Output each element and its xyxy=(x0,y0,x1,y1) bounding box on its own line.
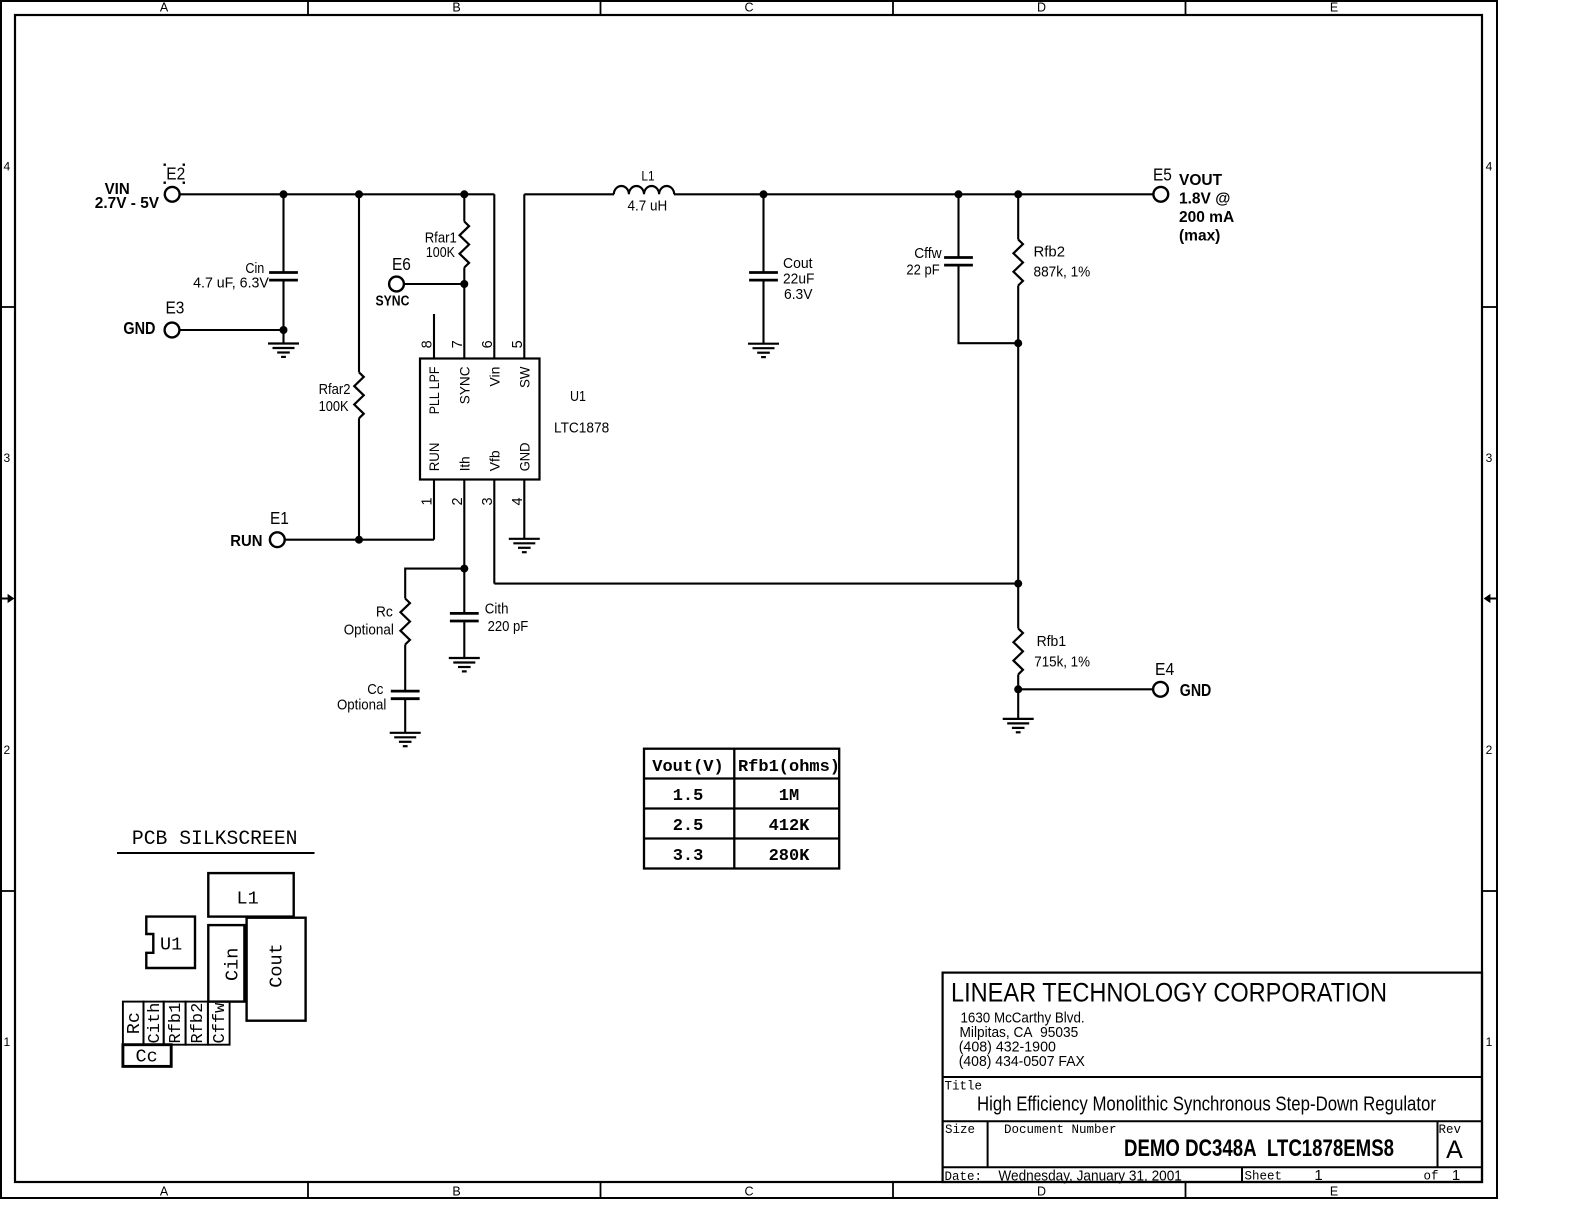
svg-text:Wednesday, January 31, 2001: Wednesday, January 31, 2001 xyxy=(998,1168,1182,1185)
wire Ith branch to Rc xyxy=(405,569,464,599)
svg-text:3: 3 xyxy=(480,497,496,505)
capacitor Cith xyxy=(450,613,479,621)
svg-text:2: 2 xyxy=(3,743,10,757)
silkscreen U1 box xyxy=(146,917,195,968)
svg-text:Title: Title xyxy=(945,1080,983,1094)
svg-text:Cc: Cc xyxy=(367,681,384,698)
wire Cith bottom xyxy=(463,621,465,658)
svg-text:Rfb1(ohms): Rfb1(ohms) xyxy=(738,758,840,777)
inductor L1 xyxy=(614,186,674,194)
svg-text:Sheet: Sheet xyxy=(1245,1170,1283,1184)
svg-text:6.3V: 6.3V xyxy=(784,286,813,303)
svg-text:Cout: Cout xyxy=(783,255,813,272)
svg-text:Cout: Cout xyxy=(267,943,288,987)
wire E6 to SYNC node xyxy=(404,283,464,285)
ground at Cc xyxy=(390,733,421,746)
svg-text:Cffw: Cffw xyxy=(211,1002,230,1044)
silkscreen Cffw box xyxy=(208,1002,230,1045)
svg-text:100K: 100K xyxy=(319,398,349,415)
ground at U1 GND pin xyxy=(509,539,540,552)
zone digits left xyxy=(3,160,10,1050)
wire pin4 GND xyxy=(523,480,525,539)
svg-text:1M: 1M xyxy=(779,787,799,806)
svg-text:B: B xyxy=(452,1184,460,1198)
svg-text:Optional: Optional xyxy=(344,622,394,639)
capacitor Cc xyxy=(391,691,420,699)
svg-text:E: E xyxy=(1330,1184,1338,1198)
wire Rfb1 to E4 xyxy=(1018,688,1153,690)
svg-text:GND: GND xyxy=(1180,680,1212,700)
svg-text:SYNC: SYNC xyxy=(456,367,472,405)
svg-text:8: 8 xyxy=(420,340,436,348)
svg-text:2.7V - 5V: 2.7V - 5V xyxy=(95,195,160,212)
capacitor Cout xyxy=(749,273,778,281)
svg-text:220 pF: 220 pF xyxy=(488,618,529,635)
svg-text:of: of xyxy=(1424,1170,1439,1184)
svg-text:4: 4 xyxy=(510,497,526,505)
junction VOUT/Cffw xyxy=(955,190,963,198)
wire Rfar1 bottom to pin7 xyxy=(463,268,465,359)
svg-text:E4: E4 xyxy=(1155,659,1174,679)
wire Rfar2 bottom to RUN xyxy=(358,418,360,539)
svg-text:PLL LPF: PLL LPF xyxy=(426,367,442,415)
junction VOUT/Rfb2 xyxy=(1014,190,1022,198)
svg-text:Size: Size xyxy=(945,1123,975,1137)
junction Cin/E3 xyxy=(280,326,288,334)
svg-text:VOUT: VOUT xyxy=(1179,172,1223,189)
svg-text:LINEAR TECHNOLOGY CORPORATION: LINEAR TECHNOLOGY CORPORATION xyxy=(951,978,1387,1008)
silkscreen Cc box xyxy=(123,1045,171,1067)
svg-text:715k, 1%: 715k, 1% xyxy=(1034,654,1090,671)
svg-text:E3: E3 xyxy=(166,298,185,318)
wire Cffw top xyxy=(957,194,959,257)
svg-text:22 pF: 22 pF xyxy=(906,262,939,279)
left fold arrow xyxy=(1,594,14,603)
svg-text:U1: U1 xyxy=(160,935,182,956)
wire Cout bottom xyxy=(762,280,764,344)
junction Rfb1/E4 xyxy=(1014,685,1022,693)
wire Cin bottom to ground xyxy=(282,280,284,343)
wire pin2 Ith to Cith xyxy=(463,480,465,614)
svg-text:1: 1 xyxy=(1486,1035,1493,1049)
wire Rfb2 top xyxy=(1017,194,1019,239)
svg-text:Date:: Date: xyxy=(945,1170,983,1184)
junction VOUT/Cout xyxy=(760,190,768,198)
wire Rfar2 top xyxy=(358,194,360,372)
silkscreen Rfb2 box xyxy=(186,1002,208,1045)
svg-text:Cc: Cc xyxy=(136,1047,158,1068)
svg-text:3.3: 3.3 xyxy=(673,847,704,866)
junction Cffw/Rfb2 bottom xyxy=(1014,339,1022,347)
svg-text:Cith: Cith xyxy=(146,1003,165,1044)
wire VOUT rail L1 to E5 xyxy=(674,193,1153,195)
svg-text:Rc: Rc xyxy=(124,1012,145,1034)
ground at Cin/E3 xyxy=(268,344,299,357)
company address xyxy=(959,1010,1085,1071)
junction VIN/Rfar2 xyxy=(355,190,363,198)
svg-text:U1: U1 xyxy=(570,388,586,405)
svg-text:1: 1 xyxy=(1314,1167,1322,1184)
svg-text:2: 2 xyxy=(1486,743,1493,757)
svg-text:E: E xyxy=(1330,1,1338,15)
junction VIN/Rfar1 xyxy=(460,190,468,198)
resistor Rc xyxy=(400,599,410,645)
svg-text:Rev: Rev xyxy=(1439,1123,1462,1137)
wire SW rail pin5 to L1 xyxy=(524,193,614,195)
svg-text:Vin: Vin xyxy=(486,367,502,387)
svg-text:L1: L1 xyxy=(236,889,258,910)
svg-text:1.8V @: 1.8V @ xyxy=(1179,191,1230,208)
svg-text:E1: E1 xyxy=(270,508,289,528)
svg-text:4: 4 xyxy=(3,160,10,174)
svg-text:5: 5 xyxy=(510,340,526,348)
wire Rc to Cc xyxy=(404,645,406,692)
svg-text:4.7 uF, 6.3V: 4.7 uF, 6.3V xyxy=(193,275,269,292)
terminal E3 xyxy=(165,323,180,338)
svg-text:D: D xyxy=(1037,1,1046,15)
wire pin1 RUN xyxy=(433,480,435,540)
svg-text:A: A xyxy=(160,1,169,15)
svg-text:7: 7 xyxy=(450,340,466,348)
svg-text:Ith: Ith xyxy=(456,456,472,471)
svg-text:GND: GND xyxy=(123,318,155,338)
terminal E2 xyxy=(165,187,180,202)
svg-text:280K: 280K xyxy=(769,847,811,866)
svg-text:3: 3 xyxy=(3,451,10,465)
zone digits right xyxy=(1486,160,1493,1050)
terminal E1 xyxy=(270,532,285,547)
junction Vfb feedback xyxy=(1014,580,1022,588)
svg-text:PCB SILKSCREEN: PCB SILKSCREEN xyxy=(132,828,298,851)
svg-text:1.5: 1.5 xyxy=(673,787,704,806)
svg-text:(max): (max) xyxy=(1179,228,1220,245)
silkscreen Cin box xyxy=(208,925,244,1002)
wire Cout top xyxy=(762,194,764,272)
svg-text:E6: E6 xyxy=(392,254,411,274)
resistor Rfb2 xyxy=(1013,240,1023,286)
svg-text:RUN: RUN xyxy=(426,443,442,472)
svg-text:1: 1 xyxy=(420,497,436,505)
ground at Rfb1/E4 xyxy=(1003,719,1034,732)
svg-text:4.7 uH: 4.7 uH xyxy=(628,197,668,214)
wire pin5 SW xyxy=(523,194,525,358)
svg-text:Rc: Rc xyxy=(376,604,393,621)
junction RUN/Rfar2 xyxy=(355,536,363,544)
wire E3 to Cin xyxy=(179,329,283,331)
svg-text:887k, 1%: 887k, 1% xyxy=(1034,264,1091,281)
svg-text:Document Number: Document Number xyxy=(1004,1123,1117,1137)
svg-text:RUN: RUN xyxy=(230,533,262,550)
svg-text:Rfb2: Rfb2 xyxy=(1034,244,1066,261)
svg-text:4: 4 xyxy=(1486,160,1493,174)
svg-text:D: D xyxy=(1037,1184,1046,1198)
svg-text:A: A xyxy=(1446,1136,1463,1164)
svg-text:2.5: 2.5 xyxy=(673,817,704,836)
E2 selection dots xyxy=(164,164,186,184)
right fold arrow xyxy=(1484,594,1497,603)
terminal E6 xyxy=(389,277,404,292)
svg-text:Vfb: Vfb xyxy=(486,450,502,471)
silkscreen Cout box xyxy=(247,918,306,1021)
wire pin3 Vfb down xyxy=(493,480,495,584)
svg-text:SW: SW xyxy=(516,366,532,388)
svg-text:1: 1 xyxy=(1452,1167,1460,1184)
wire Vfb feedback xyxy=(494,583,1018,585)
svg-text:Rfar2: Rfar2 xyxy=(319,381,351,398)
svg-text:3: 3 xyxy=(1486,451,1493,465)
silkscreen Rfb1 box xyxy=(164,1002,186,1045)
table Vout/Rfb1 xyxy=(644,749,839,869)
resistor Rfar1 xyxy=(460,222,470,268)
wire Cffw bottom xyxy=(959,265,1019,343)
svg-text:GND: GND xyxy=(516,443,532,472)
svg-text:Optional: Optional xyxy=(337,697,386,714)
wire Cc bottom xyxy=(404,699,406,733)
svg-text:L1: L1 xyxy=(641,168,654,183)
junction SYNC node xyxy=(460,280,468,288)
wire pin6 Vin xyxy=(493,194,495,358)
svg-text:1: 1 xyxy=(3,1035,10,1049)
ground at Cith xyxy=(449,658,480,671)
svg-text:200 mA: 200 mA xyxy=(1179,209,1234,226)
resistor Rfb1 xyxy=(1013,628,1023,674)
svg-text:100K: 100K xyxy=(426,244,455,261)
wire pin8 stub xyxy=(433,314,435,359)
silkscreen L1 box xyxy=(208,873,293,917)
ground at Cout xyxy=(748,344,779,357)
svg-text:DEMO DC348A LTC1878EMS8: DEMO DC348A LTC1878EMS8 xyxy=(1124,1135,1394,1162)
svg-text:C: C xyxy=(744,1,753,15)
bottom zone ticks xyxy=(308,1182,1186,1198)
wire Rfb1 bottom xyxy=(1017,675,1019,719)
svg-text:6: 6 xyxy=(480,340,496,348)
svg-text:Cin: Cin xyxy=(223,948,244,981)
resistor Rfar2 xyxy=(354,372,364,418)
svg-text:Rfb2: Rfb2 xyxy=(189,1003,208,1044)
svg-text:E2: E2 xyxy=(166,164,185,184)
svg-text:2: 2 xyxy=(450,497,466,505)
op-amp U1 LTC1878 body xyxy=(420,359,540,480)
junction Ith/Rc/Cith xyxy=(460,565,468,573)
svg-text:22uF: 22uF xyxy=(783,271,814,288)
junction VIN/Cin xyxy=(280,190,288,198)
svg-text:Rfb1: Rfb1 xyxy=(1037,633,1067,650)
svg-text:LTC1878: LTC1878 xyxy=(554,419,609,436)
svg-text:Cith: Cith xyxy=(485,601,509,618)
svg-text:(408) 434-0507 FAX: (408) 434-0507 FAX xyxy=(959,1053,1085,1070)
wire VIN rail E2 to pin6 xyxy=(180,193,495,195)
zone letters bottom xyxy=(160,1184,1338,1198)
silkscreen Rc box xyxy=(123,1002,144,1045)
left zone ticks xyxy=(1,307,15,891)
zone letters top xyxy=(160,1,1338,15)
svg-text:A: A xyxy=(160,1184,169,1198)
wire E1 to pin1 xyxy=(285,539,434,541)
wire Rfar1 top xyxy=(463,194,465,221)
capacitor Cffw xyxy=(944,258,973,266)
right zone ticks xyxy=(1482,307,1497,891)
svg-text:E5: E5 xyxy=(1153,164,1172,184)
svg-text:SYNC: SYNC xyxy=(376,294,410,310)
svg-text:Cffw: Cffw xyxy=(914,245,942,262)
svg-text:Rfb1: Rfb1 xyxy=(167,1003,186,1044)
silkscreen Cith box xyxy=(144,1002,164,1045)
svg-text:C: C xyxy=(744,1184,753,1198)
capacitor Cin xyxy=(269,273,298,281)
wire Cin top xyxy=(282,194,284,272)
svg-text:B: B xyxy=(452,1,460,15)
terminal E5 xyxy=(1153,187,1168,202)
title block xyxy=(943,973,1482,1182)
svg-text:412K: 412K xyxy=(769,817,811,836)
svg-text:Vout(V): Vout(V) xyxy=(652,758,723,777)
svg-text:High Efficiency Monolithic Syn: High Efficiency Monolithic Synchronous S… xyxy=(977,1094,1436,1116)
wire Rfb2 to Rfb1 xyxy=(1017,286,1019,629)
top zone ticks xyxy=(308,1,1186,15)
terminal E4 xyxy=(1153,682,1168,697)
